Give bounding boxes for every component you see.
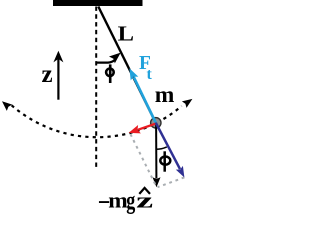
radial force arrowhead (navy) [176, 166, 185, 178]
svg-text:z: z [136, 187, 153, 212]
z axis arrowhead [53, 51, 63, 63]
gray construction dashed line from navy tip to gravity tip [158, 177, 185, 187]
gravity arrow shaft [155, 123, 157, 179]
swing arc right arrowhead [182, 99, 193, 108]
gray construction dashed line from red tip to gravity tip [131, 134, 157, 187]
svg-text:m: m [108, 187, 128, 212]
pendulum rod [98, 7, 156, 123]
phi symbol near bob (ellipse with bar) [160, 151, 170, 171]
svg-text:g: g [126, 187, 135, 214]
radial force arrow shaft (navy) [156, 123, 180, 169]
pendulum bob mass [151, 118, 161, 128]
z axis arrow shaft [57, 58, 59, 100]
angle arc arrowhead at pivot [109, 53, 121, 64]
svg-text:t: t [147, 66, 153, 83]
ceiling support bar [53, 0, 143, 6]
swing arc dashed path [12, 105, 182, 137]
vertical reference dashed line [95, 7, 97, 168]
svg-text:z: z [42, 61, 53, 88]
phi symbol at pivot (ellipse with bar) [106, 64, 114, 83]
gravity arrowhead [153, 177, 161, 187]
tension arrowhead [129, 68, 138, 80]
svg-text:m: m [155, 82, 175, 108]
angle arc near bob [156, 147, 167, 149]
hat circumflex over z [139, 188, 150, 194]
svg-text:L: L [118, 21, 134, 45]
tangential force arrowhead (red) [129, 125, 141, 133]
swing arc left arrowhead [2, 101, 12, 111]
tension arrow Ft shaft (cyan) [134, 77, 156, 123]
tangential force arrow shaft (red) [138, 124, 156, 130]
angle arc arrow at pivot [96, 60, 114, 63]
